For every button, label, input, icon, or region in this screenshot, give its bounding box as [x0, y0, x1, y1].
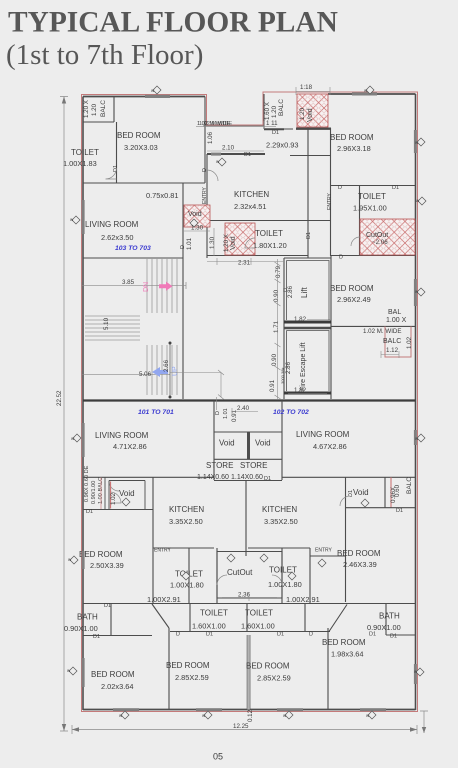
svg-text:1.14X0.60: 1.14X0.60	[231, 474, 263, 481]
wall toilet TL right	[116, 122, 118, 183]
main walls dark	[83, 94, 416, 710]
wall bedR left	[345, 477, 347, 602]
dim line 3.85	[82, 282, 186, 289]
svg-text:1.20: 1.20	[91, 103, 98, 116]
door arc void small R	[340, 496, 350, 506]
wall bedroom MR bottom	[331, 325, 416, 327]
svg-text:0.60: 0.60	[394, 484, 401, 497]
svg-text:1.20 X: 1.20 X	[83, 100, 90, 118]
svg-text:D1: D1	[390, 634, 397, 640]
svg-text:1.98x3.64: 1.98x3.64	[331, 650, 363, 659]
wall bedL/kitchen divider	[152, 477, 154, 603]
dim line 2.36	[222, 594, 277, 601]
wall toilet TR left	[359, 186, 361, 256]
left dim 22.52	[60, 97, 68, 732]
svg-text:BED ROOM: BED ROOM	[79, 550, 123, 559]
svg-text:BED ROOM: BED ROOM	[322, 638, 366, 647]
wall right outer	[415, 94, 417, 710]
svg-text:1.30: 1.30	[209, 236, 216, 249]
wall bathL bottom	[83, 635, 152, 637]
svg-text:D: D	[215, 411, 221, 415]
svg-text:D1: D1	[264, 476, 271, 482]
window bottom bedBL	[113, 708, 139, 711]
svg-text:101 TO 701: 101 TO 701	[138, 409, 174, 416]
w diamond voidsmR2	[361, 499, 369, 507]
svg-text:KITCHEN: KITCHEN	[169, 505, 204, 514]
w diamond left living101	[73, 434, 81, 442]
wall kitchen left	[206, 154, 208, 258]
wall bedroom TL right	[204, 97, 206, 184]
svg-text:2.85X2.59: 2.85X2.59	[257, 674, 291, 683]
wall kitchens bottom	[153, 547, 310, 549]
arrow 12.25 right	[410, 727, 417, 731]
dim line 1:18	[296, 87, 330, 95]
svg-text:1.82: 1.82	[294, 387, 307, 394]
svg-text:D: D	[176, 632, 180, 638]
w diamond right toiletTR	[418, 197, 426, 205]
w diamond bottom 2	[204, 711, 212, 719]
svg-text:(1st to 7th Floor): (1st to 7th Floor)	[6, 39, 203, 71]
dim tick 1.11	[264, 125, 276, 127]
w diamond top TR	[366, 86, 374, 94]
svg-text:1.20 X: 1.20 X	[223, 234, 230, 252]
w diamond cutout c1	[227, 554, 235, 562]
void L red edge	[110, 482, 112, 509]
dim line 2.10	[207, 150, 264, 152]
wall balcony TL bottom	[83, 121, 114, 123]
door arc void small L	[110, 492, 121, 503]
svg-text:D1: D1	[272, 130, 279, 136]
arrow 22.52 top	[62, 97, 66, 104]
w diamond top TL	[153, 86, 161, 94]
wall left outer	[82, 97, 84, 711]
dim line 5.06	[82, 371, 170, 378]
svg-text:1.30: 1.30	[191, 225, 204, 232]
wall balc TL divider	[113, 97, 115, 123]
door arc kitchen top	[207, 170, 218, 181]
door arc toilet TL	[106, 168, 117, 179]
wall balc2 bottom thick	[264, 128, 284, 130]
lift inner	[287, 261, 330, 321]
svg-text:2.46X3.39: 2.46X3.39	[343, 560, 377, 569]
window left wall bedBL	[82, 658, 85, 687]
wall void pair top	[214, 431, 282, 433]
window right wall bedMR	[414, 279, 417, 306]
wall fire lift bottom thick	[284, 392, 331, 395]
svg-text:BAL: BAL	[388, 309, 401, 316]
svg-text:1.80X1.20: 1.80X1.20	[253, 241, 287, 250]
svg-text:Void: Void	[230, 236, 237, 250]
wall y183 toilet/bedroom bottom	[83, 182, 205, 184]
svg-text:BED ROOM: BED ROOM	[337, 549, 381, 558]
svg-text:0.12: 0.12	[247, 709, 254, 722]
wall hatchTR bottom bar	[296, 127, 331, 129]
svg-text:D: D	[180, 245, 186, 249]
svg-text:22.52: 22.52	[56, 390, 63, 406]
w diamond voidR	[318, 559, 326, 567]
svg-text:5.06: 5.06	[139, 371, 152, 378]
svg-text:2.96X3.18: 2.96X3.18	[337, 144, 371, 153]
wall balcR divider	[390, 477, 392, 507]
svg-text:D: D	[338, 185, 342, 191]
wall kitchen right	[307, 126, 309, 258]
stairs landing lines	[85, 316, 140, 340]
svg-text:2.66: 2.66	[163, 359, 170, 372]
window left wall living103	[82, 200, 85, 234]
svg-text:1.60 X: 1.60 X	[264, 102, 271, 120]
door arc cutout right	[272, 575, 282, 585]
svg-text:ENTRY: ENTRY	[327, 192, 333, 210]
w diamond left bedL	[70, 556, 78, 564]
wall stair right	[182, 183, 184, 399]
svg-text:Void: Void	[353, 488, 369, 497]
stairs lower treads	[147, 345, 177, 395]
svg-text:0.96X 0.60 DE: 0.96X 0.60 DE	[84, 465, 90, 502]
svg-text:1.60X1.00: 1.60X1.00	[241, 622, 275, 631]
wall bedroom TR bottom	[331, 185, 416, 187]
svg-text:D1: D1	[104, 603, 111, 609]
svg-text:TOILET: TOILET	[255, 229, 283, 238]
w diamond right bedBR	[416, 668, 424, 676]
w diamond void small L	[182, 572, 190, 580]
svg-text:1.20: 1.20	[271, 105, 278, 118]
svg-text:UP: UP	[172, 366, 179, 376]
fire lift inner	[287, 331, 330, 392]
wall entryR bottom	[310, 555, 346, 557]
wall toilet TR bottom	[360, 220, 416, 222]
svg-text:4.71X2.86: 4.71X2.86	[113, 442, 147, 451]
svg-text:1.00X1.80: 1.00X1.80	[268, 580, 302, 589]
window kitchen top wall	[211, 153, 221, 156]
wall void pair left	[213, 401, 215, 481]
svg-text:1:18: 1:18	[300, 84, 313, 91]
svg-text:TOILET: TOILET	[245, 609, 273, 618]
door arc voidL top	[109, 481, 119, 491]
dim line 2.40	[232, 408, 258, 415]
svg-text:0.90X1.00: 0.90X1.00	[64, 624, 98, 633]
svg-text:102 TO 702: 102 TO 702	[273, 409, 309, 416]
svg-text:BALC: BALC	[100, 100, 107, 117]
svg-text:KITCHEN: KITCHEN	[234, 190, 269, 199]
svg-text:D1: D1	[392, 185, 399, 191]
w diamond bottom 4	[368, 711, 376, 719]
window right wall bedBR	[414, 664, 417, 684]
svg-text:Void: Void	[255, 439, 271, 448]
w diamond cutout c2	[260, 554, 268, 562]
wall balc strip left bottom	[83, 509, 153, 511]
w diamond right bedTR	[417, 138, 425, 146]
wall voidR right	[384, 477, 386, 507]
void hatch mid-center	[225, 223, 255, 255]
wall toilets bottom	[170, 631, 330, 633]
door arc cutout left	[217, 575, 227, 585]
wall bathL right	[110, 604, 112, 636]
door arc cutout TR	[351, 237, 360, 246]
dim line 1.82 firelift	[288, 393, 327, 395]
svg-text:LIVING ROOM: LIVING ROOM	[85, 220, 139, 229]
svg-text:1.02 M. WIDE: 1.02 M. WIDE	[363, 328, 402, 335]
window bottom bedBR	[360, 708, 386, 711]
void hatch top-center	[184, 205, 210, 227]
svg-text:Void: Void	[219, 439, 235, 448]
svg-text:2.29x0.93: 2.29x0.93	[266, 141, 298, 150]
svg-text:BED ROOM: BED ROOM	[330, 284, 374, 293]
svg-text:1.00X2.91: 1.00X2.91	[147, 595, 181, 604]
svg-text:0.90/1.00: 0.90/1.00	[91, 481, 97, 504]
wall bedBL right	[168, 628, 170, 710]
wall top-right top	[328, 93, 416, 95]
dim line 1.02M wide	[196, 121, 264, 129]
window right wall living102	[414, 430, 417, 445]
svg-text:1.01: 1.01	[186, 237, 193, 250]
svg-text:ENTRY: ENTRY	[154, 548, 172, 554]
wall cutout box	[217, 552, 282, 599]
svg-text:BALC: BALC	[406, 477, 413, 494]
w diamond right living102	[417, 434, 425, 442]
wall diagonal right	[329, 605, 347, 632]
svg-text:2.96X2.49: 2.96X2.49	[337, 295, 371, 304]
svg-text:D1: D1	[306, 232, 312, 239]
svg-text:LIVING ROOM: LIVING ROOM	[95, 431, 149, 440]
svg-text:3000.38k: 3000.38k	[280, 368, 285, 384]
dim line 2.31	[207, 258, 284, 265]
wall kitchen bottom	[207, 220, 330, 222]
svg-text:1.14X0.60: 1.14X0.60	[197, 474, 229, 481]
svg-text:CutOut: CutOut	[227, 568, 253, 577]
wall lift left	[283, 258, 285, 399]
svg-text:0.90: 0.90	[271, 353, 278, 366]
svg-text:1.00X1.80: 1.00X1.80	[170, 581, 204, 590]
svg-text:2.85X2.59: 2.85X2.59	[175, 673, 209, 682]
window top-left wall	[145, 95, 170, 98]
svg-text:2.02x3.64: 2.02x3.64	[101, 682, 133, 691]
wall balc2 bottom strip	[264, 129, 330, 156]
svg-text:Lift: Lift	[300, 287, 309, 298]
window right wall bedTR	[414, 130, 417, 153]
stairs upper treads	[147, 258, 177, 313]
svg-text:Void: Void	[188, 211, 202, 218]
dim line 1.30 under void	[184, 228, 214, 256]
svg-text:D1: D1	[396, 508, 403, 514]
dim line 1.12 balc	[381, 351, 399, 358]
svg-text:3.85: 3.85	[122, 279, 135, 286]
wall y255 center	[207, 255, 416, 257]
svg-text:1.01: 1.01	[223, 408, 229, 419]
svg-text:BATH: BATH	[77, 613, 98, 622]
svg-text:5.10: 5.10	[103, 317, 110, 330]
svg-text:D1: D1	[93, 634, 100, 640]
wall toiletL box	[189, 548, 217, 604]
svg-text:~2.06: ~2.06	[372, 239, 388, 246]
wall living101 bottom	[83, 476, 214, 478]
svg-text:1.12: 1.12	[386, 347, 399, 354]
svg-text:1.02: 1.02	[406, 336, 413, 349]
svg-text:DN: DN	[143, 282, 150, 292]
svg-text:3.35X2.50: 3.35X2.50	[264, 517, 298, 526]
svg-text:BED ROOM: BED ROOM	[246, 662, 290, 671]
window left wall bedL	[82, 551, 85, 569]
svg-text:BED ROOM: BED ROOM	[91, 670, 135, 679]
svg-text:D1: D1	[369, 632, 376, 638]
svg-text:TYPICAL FLOOR PLAN: TYPICAL FLOOR PLAN	[8, 7, 338, 39]
w diamond left bedBL	[69, 667, 77, 675]
svg-text:1.95X1.00: 1.95X1.00	[353, 204, 387, 213]
svg-text:3.20X3.03: 3.20X3.03	[124, 143, 158, 152]
svg-text:BALC: BALC	[383, 338, 401, 345]
svg-text:BED ROOM: BED ROOM	[330, 133, 374, 142]
svg-text:1.02: 1.02	[110, 492, 117, 505]
cutout hatch top-right	[360, 219, 415, 255]
svg-text:LIVING ROOM: LIVING ROOM	[296, 430, 350, 439]
wall bedBC2 right	[327, 628, 329, 710]
w diamond bottom 1	[121, 711, 129, 719]
svg-text:2.62x3.50: 2.62x3.50	[101, 233, 133, 242]
wall voidR bottom	[346, 507, 416, 509]
svg-text:2.86: 2.86	[287, 285, 294, 298]
wall bottom outer	[83, 709, 416, 711]
wall lift bottom thick	[284, 321, 331, 324]
window bottom bedBC2	[277, 708, 303, 711]
svg-text:D1: D1	[244, 152, 251, 158]
svg-text:D1: D1	[206, 632, 213, 638]
void small L box	[109, 481, 145, 510]
svg-text:1.06: 1.06	[207, 131, 214, 144]
wall top-left top	[83, 96, 205, 98]
wall main cross y400	[83, 399, 416, 401]
wall void pair right	[281, 401, 283, 481]
void hatch top-right	[297, 94, 328, 127]
svg-text:D1: D1	[86, 509, 93, 515]
door arc toilet center	[245, 238, 255, 248]
svg-text:1.71: 1.71	[273, 320, 280, 333]
svg-text:STORE: STORE	[240, 461, 267, 470]
svg-text:0.90: 0.90	[273, 289, 280, 302]
exterior red outline	[82, 92, 418, 712]
svg-text:2.10: 2.10	[222, 145, 235, 152]
dim 2.66 vertical dotted	[169, 343, 171, 397]
svg-text:D: D	[309, 632, 313, 638]
wall dim line top kitchen	[203, 125, 264, 127]
wall balc2 divider	[263, 94, 265, 129]
arrow 12.25 left	[72, 727, 79, 731]
svg-text:2.32x4.51: 2.32x4.51	[234, 202, 266, 211]
arrow DN pink	[159, 282, 173, 291]
svg-text:2.40: 2.40	[237, 405, 250, 412]
svg-text:TOILET: TOILET	[200, 609, 228, 618]
svg-text:CutOut: CutOut	[366, 232, 388, 239]
wall right unit left	[330, 128, 332, 256]
wall toiletR box	[282, 548, 310, 604]
wall stairs top	[83, 257, 183, 259]
svg-text:1 11: 1 11	[266, 120, 278, 127]
wall living102 bottom	[282, 476, 416, 478]
svg-text:1.60X1.00: 1.60X1.00	[192, 622, 226, 631]
wall void divider	[247, 432, 250, 460]
svg-text:2.31: 2.31	[238, 260, 251, 267]
svg-text:D: D	[339, 255, 343, 261]
svg-text:KITCHEN: KITCHEN	[262, 505, 297, 514]
w diamond bottom 3	[285, 711, 293, 719]
w diamond left living103	[72, 216, 80, 224]
svg-text:1.00X1.83: 1.00X1.83	[63, 159, 97, 168]
bottom dim 12.25	[72, 725, 417, 734]
dim line 1.82 lift	[307, 319, 331, 321]
svg-text:2.50X3.39: 2.50X3.39	[90, 561, 124, 570]
svg-text:BED ROOM: BED ROOM	[117, 131, 161, 140]
wall void pair bottom	[214, 458, 282, 460]
svg-text:103 TO 703: 103 TO 703	[115, 245, 151, 252]
wall bathR left	[385, 604, 387, 636]
wall toiletBL/BR dividers	[190, 604, 305, 632]
svg-text:Void: Void	[119, 489, 135, 498]
wall bedBC divider	[247, 635, 250, 710]
svg-text:1.82: 1.82	[294, 316, 307, 323]
wall bathR bottom	[386, 634, 416, 636]
svg-text:ENTRY: ENTRY	[315, 548, 333, 554]
wall kitchenR left	[245, 480, 247, 556]
svg-text:1.00 X: 1.00 X	[386, 317, 407, 324]
svg-text:2.86: 2.86	[285, 361, 292, 374]
wall kitchen top	[207, 153, 265, 155]
svg-text:0.91: 0.91	[269, 379, 276, 392]
svg-text:ENTRY: ENTRY	[202, 186, 208, 204]
balcony MR red box	[385, 326, 411, 357]
svg-text:TOILET: TOILET	[71, 148, 99, 157]
w diamond voidL	[122, 498, 130, 506]
svg-text:12.25: 12.25	[233, 723, 249, 730]
right small dim	[420, 711, 428, 733]
wall y603 across	[83, 603, 416, 605]
svg-text:1.20: 1.20	[299, 107, 306, 120]
svg-text:05: 05	[213, 752, 223, 762]
balc L red rail	[100, 478, 102, 510]
w diamond kitchen	[218, 158, 226, 166]
w diamond right bedMR	[417, 288, 425, 296]
svg-text:Void: Void	[307, 108, 314, 122]
arrow UP blue	[152, 367, 168, 377]
svg-text:BED ROOM: BED ROOM	[166, 661, 210, 670]
svg-text:4.67X2.86: 4.67X2.86	[313, 442, 347, 451]
wall left strip divider	[104, 477, 106, 509]
svg-text:3.35X2.50: 3.35X2.50	[169, 517, 203, 526]
svg-text:BATH: BATH	[379, 612, 400, 621]
svg-text:TOILET: TOILET	[358, 192, 386, 201]
lift thick bottoms	[284, 322, 331, 393]
w diamond void top	[190, 219, 198, 227]
dim line corridor extension	[170, 259, 281, 410]
wall store bottom	[214, 480, 282, 482]
wall fire lift top	[284, 327, 331, 330]
svg-text:Fire Escape Lift: Fire Escape Lift	[300, 342, 307, 391]
svg-text:STORE: STORE	[206, 461, 233, 470]
svg-text:D1: D1	[277, 632, 284, 638]
svg-text:0.79: 0.79	[275, 265, 282, 278]
window left wall living101	[82, 423, 85, 457]
wall diagonal left	[152, 604, 169, 628]
wall lift/bedroom divider	[330, 256, 332, 399]
svg-text:BALC: BALC	[278, 99, 285, 116]
window bottom bedBC1	[196, 708, 222, 711]
window top-right wall	[352, 92, 377, 95]
w diamond void small R	[288, 572, 296, 580]
svg-text:0.75x0.81: 0.75x0.81	[146, 191, 178, 200]
arrow 22.52 bottom	[62, 724, 66, 731]
wall lift top	[284, 257, 331, 259]
svg-text:1.00X2.91: 1.00X2.91	[286, 595, 320, 604]
